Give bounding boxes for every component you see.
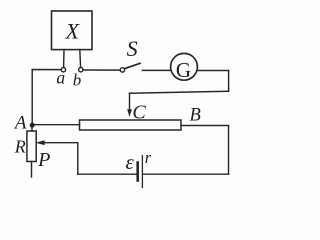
rheostat AB body bbox=[80, 120, 182, 130]
svg-text:R: R bbox=[14, 137, 26, 157]
slider C arrowhead bbox=[127, 109, 132, 117]
battery cell negative plate (short) bbox=[136, 163, 139, 181]
svg-text:r: r bbox=[145, 148, 152, 167]
battery cell positive plate (long) bbox=[141, 156, 143, 188]
wire right vertical of G loop bbox=[228, 71, 230, 92]
wire from terminal a left and down to node A bbox=[32, 70, 61, 126]
resistor R bottom stub lead bbox=[31, 162, 33, 178]
slider P arrowhead bbox=[36, 140, 45, 145]
switch S blade (open) bbox=[124, 63, 140, 68]
svg-text:S: S bbox=[127, 36, 138, 61]
svg-text:C: C bbox=[132, 101, 146, 123]
terminal a bbox=[61, 68, 65, 72]
lead from X box to terminal b bbox=[79, 50, 82, 68]
svg-text:G: G bbox=[176, 58, 191, 82]
wire from terminal b to switch S bbox=[83, 69, 120, 71]
wire bottom left from battery to slider P corner bbox=[78, 173, 137, 175]
wire from slider P down to bottom wire bbox=[77, 143, 79, 175]
resistor R body bbox=[27, 131, 36, 162]
wire bottom right from vertical to battery bbox=[143, 173, 228, 175]
wire node A to resistor R top bbox=[31, 125, 33, 131]
slider P arrow shaft bbox=[44, 142, 78, 144]
component X (unknown element) box bbox=[52, 11, 93, 50]
wire from node A to rheostat left end (A) bbox=[32, 124, 79, 126]
terminal b bbox=[79, 68, 83, 72]
wire right vertical of battery loop bbox=[228, 126, 230, 175]
svg-text:A: A bbox=[13, 113, 27, 134]
svg-text:a: a bbox=[56, 68, 65, 88]
switch S pivot contact bbox=[120, 68, 124, 72]
wire from galvanometer G right to corner bbox=[197, 70, 228, 72]
svg-text:P: P bbox=[37, 149, 50, 171]
junction dot node A bbox=[30, 123, 35, 128]
svg-text:X: X bbox=[65, 18, 81, 43]
svg-text:ε: ε bbox=[126, 150, 135, 174]
wire bottom of G loop to slider C bbox=[130, 91, 229, 93]
galvanometer G circle bbox=[171, 53, 198, 80]
wire from switch S to galvanometer G bbox=[142, 69, 170, 71]
slider C arrow shaft bbox=[129, 93, 131, 110]
svg-text:B: B bbox=[190, 106, 201, 126]
svg-text:b: b bbox=[73, 70, 82, 89]
wire from rheostat right end B to right vertical bbox=[181, 125, 229, 127]
lead from X box to terminal a bbox=[63, 50, 65, 68]
